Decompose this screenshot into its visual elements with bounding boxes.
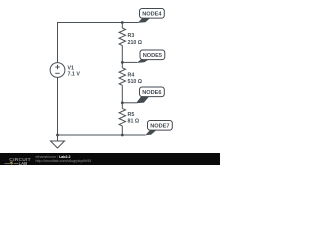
node NODE4 flag — [138, 9, 164, 23]
label V1 value — [68, 65, 81, 77]
svg-text:http://circuitlab.com/c6ugrpky: http://circuitlab.com/c6ugrpkyd9r55 — [36, 159, 92, 163]
svg-text:LAB: LAB — [19, 161, 28, 165]
wire R4 bottom lead to node B — [121, 85, 123, 108]
wire bottom horizontal — [58, 134, 146, 136]
wire R5 bottom lead — [121, 126, 123, 135]
node NODE5 flag — [137, 50, 165, 63]
CircuitLab logo — [5, 157, 31, 166]
resistor R5 — [119, 108, 125, 126]
ground — [51, 141, 65, 148]
svg-text:V1: V1 — [68, 65, 75, 71]
resistor R3 — [119, 28, 125, 46]
junction dot bottom left — [56, 134, 59, 137]
label R5 value — [128, 112, 140, 124]
svg-text:7.1 V: 7.1 V — [68, 72, 81, 78]
junction dot node A — [121, 61, 124, 64]
svg-text:NODE6: NODE6 — [142, 90, 161, 96]
svg-text:210 Ω: 210 Ω — [128, 40, 143, 46]
junction dot bottom right — [121, 134, 124, 137]
wire right rail R3 top lead — [121, 23, 123, 29]
svg-text:NODE7: NODE7 — [150, 124, 169, 130]
wire NODE5 stub — [122, 61, 137, 63]
node NODE7 flag — [145, 121, 172, 136]
wire NODE6 stub — [122, 102, 136, 104]
voltage source V1 — [50, 63, 65, 78]
svg-text:R4: R4 — [128, 73, 135, 79]
wire R3 bottom lead to node A — [121, 46, 123, 68]
svg-text:81 Ω: 81 Ω — [128, 118, 140, 124]
svg-text:R3: R3 — [128, 33, 135, 39]
junction dot top — [121, 21, 124, 24]
node NODE6 flag — [136, 87, 164, 103]
svg-text:R5: R5 — [128, 112, 135, 118]
svg-text:NODE4: NODE4 — [142, 12, 162, 18]
label R4 value — [128, 73, 143, 86]
wire left rail below V1 to ground — [57, 78, 59, 142]
svg-text:510 Ω: 510 Ω — [128, 79, 143, 85]
wire top horizontal from V1 to NODE4 anchor — [58, 23, 139, 64]
svg-text:NODE5: NODE5 — [143, 53, 162, 59]
label R3 value — [128, 33, 143, 46]
watermark bar — [0, 153, 220, 165]
junction dot node B — [121, 101, 124, 104]
resistor R4 — [119, 68, 125, 86]
